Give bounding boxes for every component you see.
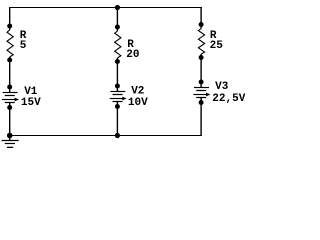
resistor R2 (R 20) [115,31,121,58]
node V2 positive pin [115,84,120,89]
battery V3 22,5V [193,88,209,98]
node V1 positive pin [7,85,12,90]
battery V1 arrow [15,98,19,102]
wire branch 2 upper [116,7,118,31]
svg-text:V2: V2 [131,86,144,98]
junction bottom bus / branch 2 [115,133,120,138]
battery V3 arrow [206,93,210,97]
svg-text:20: 20 [126,49,139,61]
svg-text:V3: V3 [215,81,229,93]
svg-text:10V: 10V [128,97,148,109]
svg-text:5: 5 [20,40,27,52]
svg-text:25: 25 [210,40,224,52]
wire branch 2 lower [116,102,118,136]
battery V1 15V [2,93,18,103]
wire branch 1 middle [9,57,11,93]
junction top bus / branch 2 [115,5,120,10]
node R2 bottom pin [115,59,120,64]
wire branch 3 lower [200,98,202,136]
node V1 negative pin [7,105,12,110]
junction ground node [7,133,13,139]
node V3 negative pin [199,100,204,105]
wire branch 1 upper [9,7,11,30]
node V2 negative pin [115,104,120,109]
battery V2 arrow [122,97,126,101]
node R3 top pin [199,22,204,27]
wire branch 2 middle [116,58,118,92]
svg-text:22,5V: 22,5V [212,93,245,105]
wire top bus [10,7,202,9]
wire branch 3 middle [200,54,202,88]
node V3 positive pin [199,80,204,85]
ground [2,136,19,148]
resistor R3 (R 25) [198,29,204,55]
node R1 top pin [7,24,12,29]
resistor R1 (R 5) [7,30,13,57]
svg-text:15V: 15V [21,97,41,109]
battery V2 10V [110,92,126,102]
wire branch 1 lower [9,103,11,136]
node R1 bottom pin [7,58,12,63]
node R3 bottom pin [199,55,204,60]
wire bottom bus [10,135,202,137]
node R2 top pin [115,25,120,30]
wire branch 3 upper [200,7,202,29]
